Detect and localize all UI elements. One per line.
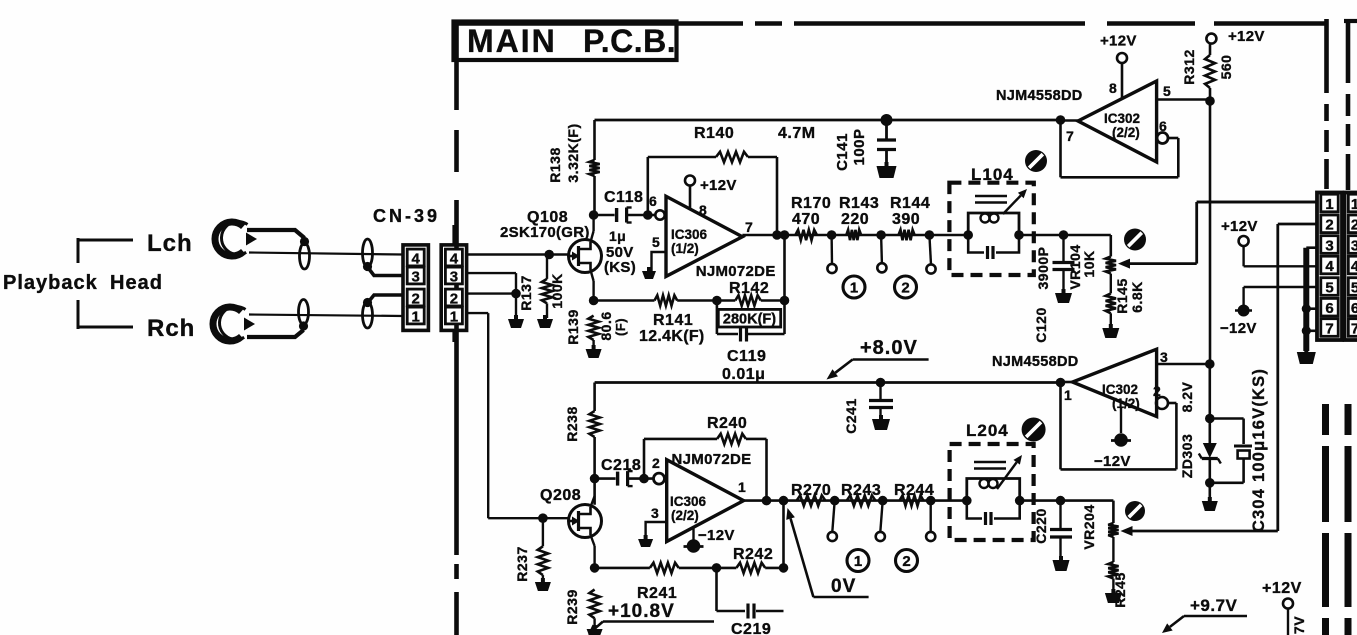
svg-text:MAIN: MAIN <box>467 23 557 59</box>
svg-text:4.7M: 4.7M <box>778 125 816 142</box>
svg-text:Head: Head <box>110 272 163 294</box>
svg-text:R312: R312 <box>1181 49 1197 84</box>
svg-text:5: 5 <box>1163 83 1171 99</box>
svg-text:2: 2 <box>1351 217 1357 234</box>
svg-text:4: 4 <box>1325 258 1334 275</box>
svg-text:L204: L204 <box>966 421 1009 440</box>
svg-text:C220: C220 <box>1033 508 1049 543</box>
svg-text:1: 1 <box>854 553 862 570</box>
svg-text:P.C.B.: P.C.B. <box>583 23 676 59</box>
svg-text:1: 1 <box>850 280 858 297</box>
svg-text:R238: R238 <box>564 406 580 441</box>
svg-text:R138: R138 <box>547 147 563 182</box>
svg-text:Q208: Q208 <box>540 487 581 504</box>
svg-text:3: 3 <box>412 269 420 286</box>
svg-text:R143: R143 <box>839 195 879 212</box>
svg-text:8: 8 <box>1109 80 1117 96</box>
svg-text:6.8K: 6.8K <box>1129 281 1145 313</box>
svg-text:Rch: Rch <box>147 315 195 342</box>
svg-text:R243: R243 <box>841 482 881 499</box>
svg-text:+10.8V: +10.8V <box>608 601 675 622</box>
svg-text:R242: R242 <box>733 546 773 563</box>
svg-text:+12V: +12V <box>1262 580 1302 597</box>
svg-text:3900P: 3900P <box>1035 247 1051 290</box>
svg-text:12.4K(F): 12.4K(F) <box>639 328 705 345</box>
svg-text:5: 5 <box>1325 279 1333 296</box>
svg-text:3: 3 <box>1325 237 1333 254</box>
svg-text:(F): (F) <box>613 318 628 336</box>
svg-text:C241: C241 <box>843 398 859 433</box>
svg-text:3: 3 <box>651 505 659 521</box>
svg-text:IC302: IC302 <box>1102 382 1138 397</box>
svg-text:5: 5 <box>652 234 660 250</box>
svg-text:1: 1 <box>1351 196 1357 213</box>
svg-text:80.6: 80.6 <box>598 311 614 340</box>
svg-text:1: 1 <box>1325 196 1333 213</box>
svg-text:2: 2 <box>902 553 910 570</box>
svg-text:2: 2 <box>652 455 660 471</box>
svg-text:6: 6 <box>1325 300 1333 317</box>
svg-text:(KS): (KS) <box>604 259 636 276</box>
svg-text:7: 7 <box>1325 320 1333 337</box>
svg-text:2: 2 <box>450 291 458 308</box>
svg-text:R270: R270 <box>791 482 831 499</box>
svg-text:1: 1 <box>412 309 420 326</box>
svg-text:−12V: −12V <box>1220 320 1257 337</box>
svg-text:IC306: IC306 <box>670 494 707 509</box>
svg-text:ZD303: ZD303 <box>1179 434 1195 479</box>
svg-text:VR204: VR204 <box>1081 504 1097 549</box>
svg-text:R245: R245 <box>1112 572 1128 607</box>
svg-text:2: 2 <box>412 291 420 308</box>
svg-text:7: 7 <box>1066 128 1074 144</box>
svg-text:3: 3 <box>1160 349 1168 365</box>
svg-text:R240: R240 <box>707 415 747 432</box>
svg-text:1: 1 <box>450 309 458 326</box>
svg-text:6: 6 <box>649 193 657 209</box>
svg-text:−12V: −12V <box>698 527 735 544</box>
svg-text:2: 2 <box>1325 217 1333 234</box>
svg-text:+12V: +12V <box>1100 33 1137 50</box>
svg-text:+8.0V: +8.0V <box>860 337 918 359</box>
svg-text:R244: R244 <box>894 482 934 499</box>
svg-text:1: 1 <box>1064 387 1072 403</box>
svg-text:(1/2): (1/2) <box>671 241 699 256</box>
svg-text:R137: R137 <box>518 275 534 310</box>
svg-text:+9.7V: +9.7V <box>1190 596 1238 615</box>
svg-text:R145: R145 <box>1114 278 1130 313</box>
svg-text:1μ: 1μ <box>609 228 626 244</box>
svg-text:C141: C141 <box>834 133 851 171</box>
svg-text:7: 7 <box>1351 320 1357 337</box>
svg-text:100P: 100P <box>851 128 868 165</box>
svg-text:R141: R141 <box>653 312 693 329</box>
svg-text:470: 470 <box>792 211 820 228</box>
svg-text:Playback: Playback <box>3 272 98 294</box>
svg-text:3: 3 <box>450 269 458 286</box>
svg-text:R142: R142 <box>729 280 769 297</box>
svg-text:NJM4558DD: NJM4558DD <box>992 354 1079 370</box>
svg-text:100K: 100K <box>549 273 565 308</box>
svg-text:2: 2 <box>901 280 909 297</box>
svg-text:560: 560 <box>1218 55 1234 80</box>
svg-text:CN-39: CN-39 <box>373 206 440 226</box>
svg-text:R144: R144 <box>890 195 930 212</box>
svg-text:4: 4 <box>450 251 459 268</box>
svg-text:2SK170(GR): 2SK170(GR) <box>500 224 590 241</box>
svg-text:(2/2): (2/2) <box>671 508 699 523</box>
svg-text:NJM072DE: NJM072DE <box>672 451 752 468</box>
svg-text:10K: 10K <box>1081 250 1097 277</box>
svg-text:220: 220 <box>841 211 869 228</box>
svg-text:C118: C118 <box>604 189 643 206</box>
svg-text:(1/2): (1/2) <box>1112 396 1140 411</box>
svg-text:+12V: +12V <box>1221 218 1258 235</box>
svg-text:(2/2): (2/2) <box>1112 125 1140 140</box>
svg-text:5: 5 <box>1351 279 1357 296</box>
svg-text:R241: R241 <box>637 585 677 602</box>
svg-text:R237: R237 <box>514 546 530 581</box>
svg-text:4: 4 <box>412 251 421 268</box>
svg-text:R139: R139 <box>565 309 581 344</box>
svg-text:390: 390 <box>892 211 920 228</box>
svg-text:C120: C120 <box>1033 307 1049 342</box>
svg-text:280K(F): 280K(F) <box>723 312 776 328</box>
svg-text:8: 8 <box>699 202 707 218</box>
svg-text:1: 1 <box>738 479 746 495</box>
svg-text:3: 3 <box>1351 237 1357 254</box>
svg-text:C218: C218 <box>601 457 641 474</box>
svg-text:C219: C219 <box>731 621 771 635</box>
svg-text:NJM072DE: NJM072DE <box>696 263 776 280</box>
svg-text:R170: R170 <box>791 195 831 212</box>
svg-text:0.01μ: 0.01μ <box>722 366 765 383</box>
svg-text:−12V: −12V <box>1094 453 1131 470</box>
svg-text:+12V: +12V <box>700 177 737 194</box>
svg-text:6: 6 <box>1351 300 1357 317</box>
svg-text:C119: C119 <box>727 348 766 365</box>
svg-text:3.32K(F): 3.32K(F) <box>565 123 581 182</box>
svg-text:C304 100μ16V(KS): C304 100μ16V(KS) <box>1250 368 1268 532</box>
svg-text:7: 7 <box>745 219 753 235</box>
svg-text:Lch: Lch <box>147 230 193 257</box>
svg-text:8.2V: 8.2V <box>1179 381 1195 412</box>
svg-text:4: 4 <box>1351 258 1357 275</box>
svg-text:7V: 7V <box>1291 616 1307 634</box>
svg-text:IC302: IC302 <box>1104 111 1140 126</box>
svg-text:IC306: IC306 <box>671 227 708 242</box>
svg-text:R239: R239 <box>564 589 580 624</box>
svg-text:+12V: +12V <box>1228 28 1265 45</box>
svg-text:0V: 0V <box>831 576 856 597</box>
svg-text:NJM4558DD: NJM4558DD <box>996 88 1083 104</box>
svg-text:R140: R140 <box>694 125 734 142</box>
